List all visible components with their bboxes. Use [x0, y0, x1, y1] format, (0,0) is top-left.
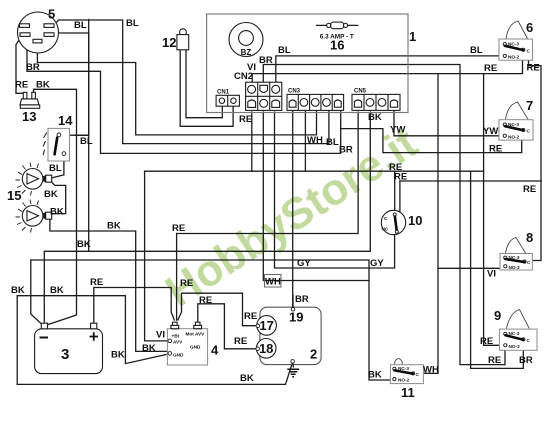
- svg-text:11: 11: [401, 385, 415, 400]
- svg-text:4: 4: [211, 343, 219, 358]
- wire BR CN3 pin1 to starter relay 19: [292, 110, 294, 307]
- svg-text:NO-2: NO-2: [398, 378, 410, 383]
- svg-text:RE: RE: [239, 114, 252, 125]
- wire CN1 pin2 to sensor12: [180, 50, 233, 126]
- svg-text:CN3: CN3: [288, 89, 301, 95]
- svg-text:BZ: BZ: [241, 48, 252, 57]
- wire RE drop to relay10 C: [394, 171, 396, 214]
- svg-text:NO-2: NO-2: [508, 55, 520, 60]
- wire RE drop to switch8 C: [526, 181, 541, 261]
- wire BK horn 13 to battery minus: [34, 89, 77, 324]
- svg-text:RE: RE: [15, 80, 28, 91]
- svg-text:BL: BL: [326, 137, 339, 148]
- svg-text:16: 16: [330, 38, 344, 53]
- wire RE switch6 C diagonal down right rail: [524, 51, 541, 182]
- svg-text:19: 19: [289, 310, 303, 325]
- svg-text:NC-3: NC-3: [509, 255, 520, 260]
- svg-text:GY: GY: [370, 258, 384, 269]
- microswitch 7: [499, 102, 533, 140]
- wire BL tap to switch14 top terminal: [59, 134, 89, 136]
- svg-text:BL: BL: [74, 20, 87, 31]
- connector CN5: [352, 94, 400, 110]
- svg-text:BK: BK: [36, 80, 50, 91]
- wire BL ignition pin TR to CN3 pin4: [54, 20, 329, 144]
- svg-text:14: 14: [58, 113, 73, 128]
- connector CN1: [216, 95, 239, 106]
- svg-text:18: 18: [259, 341, 273, 356]
- svg-text:WH: WH: [307, 135, 323, 146]
- svg-text:BK: BK: [240, 373, 254, 384]
- wire BK bottom rail to frame ground comp2: [17, 296, 292, 385]
- svg-text:RE: RE: [488, 355, 501, 366]
- regulator 4: [167, 322, 207, 365]
- engine 2: [256, 307, 321, 364]
- sensor 12: [177, 29, 189, 50]
- wire RE relay10 C second lead: [396, 181, 400, 215]
- wire RE horizontal to relay10 and rail: [400, 180, 541, 182]
- svg-text:RE: RE: [523, 184, 536, 195]
- headlamps 15: [16, 163, 52, 233]
- wire BK lamps to comp4 GND: [50, 219, 168, 352]
- microswitch 8: [500, 238, 532, 271]
- svg-text:BK: BK: [50, 207, 64, 218]
- microswitch 6: [499, 21, 533, 60]
- svg-text:BK: BK: [11, 285, 25, 296]
- svg-text:8: 8: [526, 230, 533, 245]
- svg-text:BK: BK: [142, 343, 156, 354]
- wire BR ignition pin ML to CN3 pin5: [27, 37, 341, 154]
- svg-text:BL: BL: [126, 18, 139, 29]
- wire BK battery minus to microswitch 11 NO-2: [31, 260, 392, 380]
- battery 3: [35, 323, 103, 373]
- svg-text:VI: VI: [487, 269, 496, 280]
- svg-text:WH: WH: [423, 365, 439, 376]
- wire RE CN3 pin2 drop: [304, 110, 306, 171]
- wire WH ignition pin BC to CN3 pin3: [37, 43, 316, 135]
- svg-text:BK: BK: [50, 285, 64, 296]
- svg-text:NO-2: NO-2: [509, 344, 521, 349]
- svg-text:BR: BR: [295, 294, 309, 305]
- wire BL switch14 bottom to lamps: [50, 155, 64, 179]
- svg-text:NC-3: NC-3: [509, 331, 520, 336]
- svg-text:CN2: CN2: [234, 71, 253, 82]
- svg-text:BK: BK: [77, 239, 91, 250]
- wire VI CN2 pin1 top to switch6 C loop: [252, 51, 522, 82]
- svg-text:BK: BK: [368, 112, 382, 123]
- svg-text:RE: RE: [90, 277, 103, 288]
- svg-text:7: 7: [526, 98, 533, 113]
- watermark HobbyStore.it: [157, 118, 426, 316]
- wire RE riser from +Bt funnel: [176, 234, 178, 321]
- wire RE ignition pin ML to horn 13: [16, 37, 25, 95]
- svg-text:Mot AVV: Mot AVV: [186, 331, 206, 336]
- svg-text:9: 9: [494, 308, 501, 323]
- wire jog CN3 pin5 to switch7 C: [341, 129, 522, 153]
- wire GY CN2 pin3 bottom to relay10 NC: [275, 112, 395, 268]
- svg-text:BK: BK: [44, 189, 58, 200]
- wire BL ignition to lamp switch 14 top: [75, 20, 89, 136]
- wire BK loop to comp4 GND diagonal: [17, 296, 166, 364]
- relay switch 10: [381, 210, 405, 234]
- svg-text:BR: BR: [26, 62, 40, 73]
- svg-text:GND: GND: [190, 344, 201, 349]
- wire BR CN2 pin2 top to switch9 bottom: [263, 65, 505, 365]
- svg-text:RE: RE: [180, 278, 193, 289]
- wire RE battery plus to comp4 +Bt: [94, 288, 175, 324]
- wire BR switch9 C drop: [471, 171, 524, 368]
- wire RE riser comp4 AVV: [145, 171, 167, 341]
- svg-text:RE: RE: [234, 336, 247, 347]
- svg-text:BL: BL: [49, 163, 62, 174]
- svg-text:12: 12: [162, 35, 176, 50]
- wire BR to terminal 19: [292, 295, 294, 307]
- wire RE CN2 pin1 bottom drop: [251, 112, 253, 171]
- svg-text:BR: BR: [259, 55, 273, 66]
- wire BK battery minus to CN5 pin2: [44, 112, 370, 322]
- light switch 14: [43, 128, 70, 161]
- microswitch 9: [499, 310, 537, 351]
- svg-text:AVV: AVV: [173, 339, 183, 344]
- svg-text:BK: BK: [111, 350, 125, 361]
- svg-text:NC-3: NC-3: [398, 366, 409, 371]
- svg-text:BK: BK: [107, 221, 121, 232]
- wire YW CN5 pin4 to switch7 NO-2: [394, 110, 502, 135]
- svg-text:VI: VI: [156, 330, 165, 341]
- microswitch 11: [390, 359, 423, 384]
- svg-text:YW: YW: [390, 125, 405, 136]
- svg-text:RE: RE: [199, 295, 212, 306]
- svg-text:BR: BR: [339, 145, 353, 156]
- svg-text:BL: BL: [278, 45, 291, 56]
- svg-text:CN1: CN1: [217, 90, 230, 96]
- svg-text:RE: RE: [394, 172, 407, 183]
- svg-text:BL: BL: [470, 45, 483, 56]
- horn button 13: [20, 92, 40, 108]
- wire VI drop to microswitch 11 C: [424, 74, 438, 374]
- ignition switch 5: [18, 12, 59, 53]
- svg-text:GY: GY: [297, 258, 311, 269]
- wire WH CN2 pin2 bottom: [263, 112, 369, 281]
- svg-text:RE: RE: [480, 336, 493, 347]
- wire BK funnel left battery: [31, 260, 42, 324]
- svg-text:NC: NC: [382, 227, 389, 232]
- svg-text:2: 2: [310, 347, 317, 362]
- svg-text:RE: RE: [244, 311, 257, 322]
- wire BK lamp1 to lamp2 link: [52, 182, 66, 214]
- svg-text:GND: GND: [173, 352, 184, 357]
- svg-text:RE: RE: [172, 223, 185, 234]
- svg-text:6: 6: [526, 20, 533, 35]
- wire CN1 pin1 to sensor12: [186, 50, 222, 118]
- svg-text:15: 15: [7, 188, 21, 203]
- svg-text:WH: WH: [265, 277, 281, 288]
- frame ground symbol: [287, 363, 299, 377]
- boxed WH label: [265, 275, 282, 288]
- wire RE drop to switch9 NO-2: [484, 74, 502, 346]
- fuse 16: [317, 22, 358, 40]
- svg-text:NO-2: NO-2: [508, 134, 520, 139]
- wire RE comp4 Mot AVV to starter 18: [198, 304, 256, 349]
- svg-text:BK: BK: [368, 370, 382, 381]
- svg-text:+Bt: +Bt: [172, 333, 180, 338]
- svg-text:YW: YW: [483, 126, 498, 137]
- wire RE comp4 +Bt to solenoid 17: [178, 293, 257, 326]
- wire RE line +Bt to CN3 pin1 and CN5 pin1: [177, 112, 359, 234]
- wire BL ignition pin MR down past switch 14: [54, 33, 89, 251]
- svg-text:NO-2: NO-2: [509, 265, 521, 270]
- svg-text:RE: RE: [527, 63, 540, 74]
- svg-text:NC-3: NC-3: [508, 122, 519, 127]
- wire BL CN2 pin3 top to switch6 NO-2: [276, 56, 501, 82]
- svg-text:RE: RE: [489, 144, 502, 155]
- connector CN3: [287, 94, 344, 110]
- svg-text:17: 17: [259, 318, 273, 333]
- svg-text:5: 5: [48, 7, 55, 22]
- control box 1: [207, 14, 408, 113]
- svg-text:BL: BL: [80, 136, 93, 147]
- buzzer BZ: [229, 23, 263, 58]
- wire VI branch to switch8 NO-2: [438, 267, 502, 269]
- svg-text:3: 3: [61, 346, 69, 363]
- connector CN2: [246, 82, 282, 110]
- svg-text:CN5: CN5: [354, 89, 367, 95]
- svg-text:1: 1: [409, 29, 416, 44]
- svg-text:BR: BR: [519, 355, 533, 366]
- wire RE long line comp4 AVV to switch9 riser: [145, 170, 484, 172]
- svg-text:10: 10: [408, 213, 422, 228]
- svg-text:13: 13: [22, 109, 36, 124]
- svg-text:RE: RE: [484, 63, 497, 74]
- svg-text:NC-3: NC-3: [508, 42, 519, 47]
